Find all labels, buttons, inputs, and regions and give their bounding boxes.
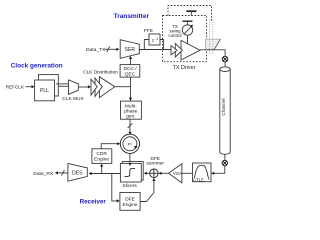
dashed box B TX driver block bbox=[163, 16, 207, 62]
arrow DCC to SER bbox=[129, 56, 132, 65]
svg-text:control: control bbox=[168, 33, 181, 38]
svg-text:Engine: Engine bbox=[94, 157, 109, 163]
svg-text:Receiver: Receiver bbox=[80, 198, 107, 205]
channel cylinder bbox=[220, 67, 230, 154]
label TX swing control bbox=[168, 24, 181, 38]
svg-text:PLL: PLL bbox=[40, 88, 49, 94]
svg-text:summer: summer bbox=[146, 161, 164, 167]
DCC/QEC box bbox=[120, 65, 140, 78]
svg-text:-1: -1 bbox=[155, 37, 158, 41]
svg-text:DFE: DFE bbox=[151, 156, 160, 161]
arrow tap to CDR bbox=[100, 164, 103, 174]
svg-text:Engine: Engine bbox=[123, 202, 138, 208]
supply bar VDD (box A) bbox=[186, 11, 196, 15]
svg-text:CLK MUX: CLK MUX bbox=[62, 96, 84, 102]
Data_TX input bbox=[86, 46, 119, 53]
svg-text:CTLE: CTLE bbox=[193, 177, 204, 182]
svg-text:FFE: FFE bbox=[144, 28, 154, 34]
wire SER to driver bbox=[139, 49, 171, 51]
svg-text:CDR: CDR bbox=[96, 151, 107, 157]
svg-text:Data_RX: Data_RX bbox=[33, 171, 54, 177]
svg-text:Transmitter: Transmitter bbox=[114, 13, 150, 20]
pad parallelogram gray bbox=[206, 39, 221, 49]
pad symbol bottom (circle-X) bbox=[222, 155, 227, 166]
wire summer to slicers bbox=[144, 172, 150, 175]
wire CDR to PI bbox=[101, 144, 119, 149]
DFE Engine box bbox=[120, 193, 140, 211]
wire mpg to PI with bus slash bbox=[128, 119, 133, 135]
phase interpolator PI bbox=[120, 134, 139, 153]
Data_RX output bbox=[33, 170, 68, 177]
deserializer DES bbox=[68, 163, 87, 181]
label DFE summer bbox=[146, 156, 164, 167]
PLL box (stacked) bbox=[35, 75, 59, 101]
wire channel to CTLE bbox=[212, 166, 225, 174]
svg-text:QEC: QEC bbox=[125, 71, 136, 77]
wire slicers to DES bbox=[90, 173, 121, 175]
svg-text:TX Driver: TX Driver bbox=[173, 65, 196, 71]
svg-text:DCC /: DCC / bbox=[123, 66, 137, 72]
svg-text:PI: PI bbox=[128, 141, 132, 146]
multi-phase gen box bbox=[121, 101, 142, 120]
CDR Engine box bbox=[92, 149, 112, 164]
wires PLL to CLK MUX bbox=[56, 84, 69, 86]
svg-text:DFE: DFE bbox=[125, 196, 135, 202]
svg-text:REFCLK: REFCLK bbox=[6, 85, 25, 90]
wire PI to slicers bbox=[128, 153, 131, 166]
svg-text:Clock generation: Clock generation bbox=[11, 62, 63, 69]
TX pre-driver 1 bbox=[171, 46, 177, 55]
wire VGA to summer bbox=[159, 172, 169, 175]
svg-text:DES: DES bbox=[72, 171, 83, 177]
swing control variable source bbox=[182, 25, 193, 44]
VGA amplifier bbox=[169, 164, 183, 183]
FFE tap wiring bbox=[144, 40, 163, 50]
svg-text:CLK Distribution: CLK Distribution bbox=[83, 70, 118, 76]
wire TX output to channel bbox=[200, 50, 225, 67]
TX pre-driver 2 bbox=[175, 43, 182, 57]
dashed box A (output/pad domain) bbox=[168, 6, 212, 22]
arrow into multiphase gen bbox=[129, 98, 132, 101]
TX driver big triangle bbox=[181, 40, 200, 60]
wire DFE engine to summer bbox=[140, 178, 155, 202]
svg-text:gen.: gen. bbox=[126, 115, 135, 120]
svg-text:Data_TX: Data_TX bbox=[86, 47, 106, 53]
CLK MUX bbox=[62, 80, 84, 102]
DFE summer circle bbox=[150, 169, 159, 178]
supply bar (box B) bbox=[183, 21, 193, 25]
CTLE box bbox=[193, 163, 212, 182]
svg-text:Channel: Channel bbox=[221, 98, 226, 115]
svg-text:Slicers: Slicers bbox=[122, 183, 137, 189]
pad symbol top (circle-X) bbox=[222, 56, 228, 62]
wire tap down to DFE engine bbox=[112, 174, 120, 203]
svg-text:Multi-: Multi- bbox=[125, 103, 137, 109]
slicer symbol bbox=[125, 169, 135, 177]
svg-text:SER: SER bbox=[125, 47, 136, 53]
svg-text:VGA: VGA bbox=[173, 171, 182, 176]
serializer SER bbox=[120, 40, 139, 59]
pad probe gray strip bbox=[209, 19, 212, 54]
wire mux to buffers bbox=[78, 85, 91, 88]
REFCLK input bbox=[6, 85, 35, 90]
CLK distribution buffers bbox=[91, 77, 115, 98]
FFE z-1 box bbox=[149, 34, 160, 45]
slicers box (stacked) bbox=[120, 162, 143, 183]
wire CTLE to VGA bbox=[182, 172, 193, 174]
clock trunk wiring bbox=[115, 77, 131, 101]
